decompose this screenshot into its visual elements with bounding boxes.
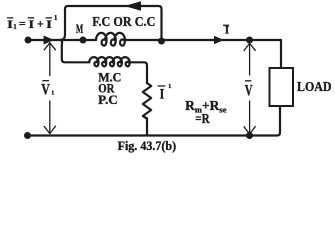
inductor F.C/C.C coil: [96, 33, 125, 46]
junction dot: left bottom terminal: [24, 132, 31, 139]
svg-text:I: I: [46, 17, 52, 31]
svg-text:1: 1: [168, 83, 171, 90]
svg-text:F.C OR C.C: F.C OR C.C: [92, 15, 155, 30]
dimension arrow V1: [44, 43, 56, 134]
wire: top bypass rail: [65, 6, 162, 41]
wire: junction hook lower + down branch: [60, 40, 90, 62]
junction dot: bypass right: [158, 38, 165, 45]
wire: resistor bottom to bottom rail: [146, 119, 148, 136]
svg-text:1: 1: [51, 90, 54, 97]
arrowhead: input current I1: [44, 36, 54, 45]
svg-text:+: +: [37, 17, 44, 31]
label I(prime) at resistor, bar: [158, 85, 166, 86]
junction dot: node M: [80, 37, 87, 44]
svg-text:V: V: [41, 82, 50, 99]
inductor M.C/P.C coil: [89, 57, 129, 66]
resistor R (zigzag): [143, 83, 151, 119]
wire: main horizontal coil to load corner: [124, 40, 281, 68]
junction dot: V node bottom: [246, 132, 253, 139]
svg-text:V: V: [245, 82, 253, 99]
arrowhead: bypass current (left): [125, 1, 142, 11]
dimension arrow V: [244, 43, 256, 134]
junction dot: V node top: [246, 37, 253, 44]
formula I1 = I + I(prime), bar I1: [7, 17, 13, 18]
arrowhead: line current I (right): [214, 36, 224, 45]
svg-text:M: M: [76, 21, 83, 36]
svg-text:I: I: [225, 23, 230, 37]
label V1, bar: [42, 80, 49, 81]
svg-text:I: I: [160, 87, 165, 103]
svg-text:=R: =R: [195, 111, 210, 126]
wire: main horizontal input to coil: [28, 39, 96, 41]
label I (line current), bar: [223, 25, 229, 26]
svg-text:LOAD: LOAD: [297, 79, 332, 94]
svg-text:1: 1: [13, 24, 17, 31]
svg-text:1: 1: [54, 15, 58, 22]
svg-text:P.C: P.C: [98, 93, 118, 107]
junction dot: left top terminal: [25, 37, 32, 44]
wire: junction hook upper (brace curl): [60, 35, 65, 41]
svg-text:I: I: [28, 17, 34, 31]
load box: [270, 68, 294, 106]
wire: M.C coil to resistor top: [128, 62, 147, 83]
wire: bottom rail: [28, 106, 281, 136]
svg-text:=: =: [19, 16, 26, 30]
svg-text:Fig. 43.7(b): Fig. 43.7(b): [118, 138, 177, 153]
label V, bar: [245, 80, 251, 81]
